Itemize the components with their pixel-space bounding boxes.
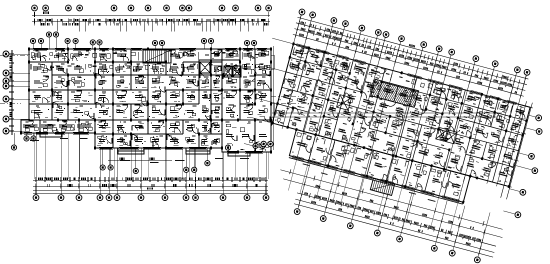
left building bottom grid stems	[36, 133, 266, 194]
left building lower annotation smudges	[30, 138, 249, 163]
right building bottom grid stems	[298, 164, 490, 257]
right building top dimension chain row 2	[294, 26, 526, 93]
left building left vertical dimension chain	[9, 50, 14, 135]
left building lower secondary bubble stems	[14, 133, 262, 168]
left building body room grid (upper block)	[29, 49, 271, 120]
left building body room grid (lower-left block)	[21, 120, 95, 133]
right building right-side grid bubbles	[509, 114, 550, 219]
right building upper strip details	[292, 47, 521, 116]
left building grid line extensions to bottom chains	[35, 133, 269, 179]
left building top dimension chain row 1	[32, 19, 270, 24]
right building hatched block	[371, 79, 419, 107]
left building upper strip details	[31, 52, 138, 61]
left building window strips bottom edges	[24, 132, 89, 134]
left building elevator shafts	[200, 62, 210, 73]
right building bottom wall inner line	[289, 158, 463, 205]
right building long site lines below body	[280, 167, 503, 231]
left building body room grid (lower-right block)	[222, 120, 271, 152]
right building top grid bubble row	[298, 8, 530, 75]
right building body room grid (lower block)	[289, 130, 470, 203]
left building left grid stems	[9, 54, 30, 131]
left building: axis-aligned residential floor plan	[0, 5, 312, 200]
right building elevator shafts	[436, 127, 448, 141]
left building left grid bubble column	[3, 51, 9, 134]
right building right-side dimension chains	[498, 100, 529, 198]
left building right-edge extras	[271, 46, 274, 150]
right building right-side stems	[503, 115, 545, 215]
right building top dimension chain row 3	[292, 31, 524, 98]
left building bottom dimension chains	[33, 177, 268, 182]
right building left-edge bubble pair	[260, 139, 273, 149]
right building body room grid (upper block)	[272, 44, 530, 187]
right building lower annotation smudges	[302, 163, 436, 203]
right building bottom overall dimension line	[294, 201, 494, 259]
left building sill line at y160	[108, 158, 172, 161]
left building lower-left band details	[23, 125, 92, 132]
left building top overall dimension 24400	[32, 12, 270, 17]
site lines crossing towards right building	[272, 113, 502, 117]
left building window strips top edge	[33, 48, 267, 50]
left building top grid bubble row	[32, 5, 272, 11]
left building top dimension chain row 2	[32, 21, 270, 23]
right building: rotated residential floor plan	[230, 4, 550, 264]
left building balconies	[40, 133, 250, 156]
left building secondary bubble stems	[33, 37, 254, 49]
right building bottom dimension chains	[297, 190, 497, 248]
left building top windows	[25, 48, 266, 153]
right building top overall dimension 26600	[297, 14, 529, 81]
right building grid lines through body	[265, 39, 520, 209]
right building lower strip details	[296, 132, 465, 184]
left building dashed centerlines	[0, 55, 312, 103]
left building staircase hatch	[143, 50, 171, 63]
right building bottom grid bubble row	[294, 208, 481, 263]
right building window strips top edge	[296, 44, 517, 105]
right building grid stems	[295, 15, 527, 99]
right building top dimension chain row 1	[296, 20, 528, 87]
left building lower secondary bubbles	[11, 136, 265, 174]
left building bottom grid bubble row	[33, 195, 269, 201]
right building grid line extensions to bottom chains	[288, 158, 458, 234]
left building chain comb stems	[35, 19, 269, 32]
left building secondary bubble pairs	[30, 32, 256, 46]
right building horizontal grid extensions left	[244, 38, 293, 149]
right building entrance steps	[370, 178, 394, 195]
left building body room grid (lower-middle block)	[95, 120, 222, 148]
right building window strips bottom edge	[292, 155, 460, 202]
